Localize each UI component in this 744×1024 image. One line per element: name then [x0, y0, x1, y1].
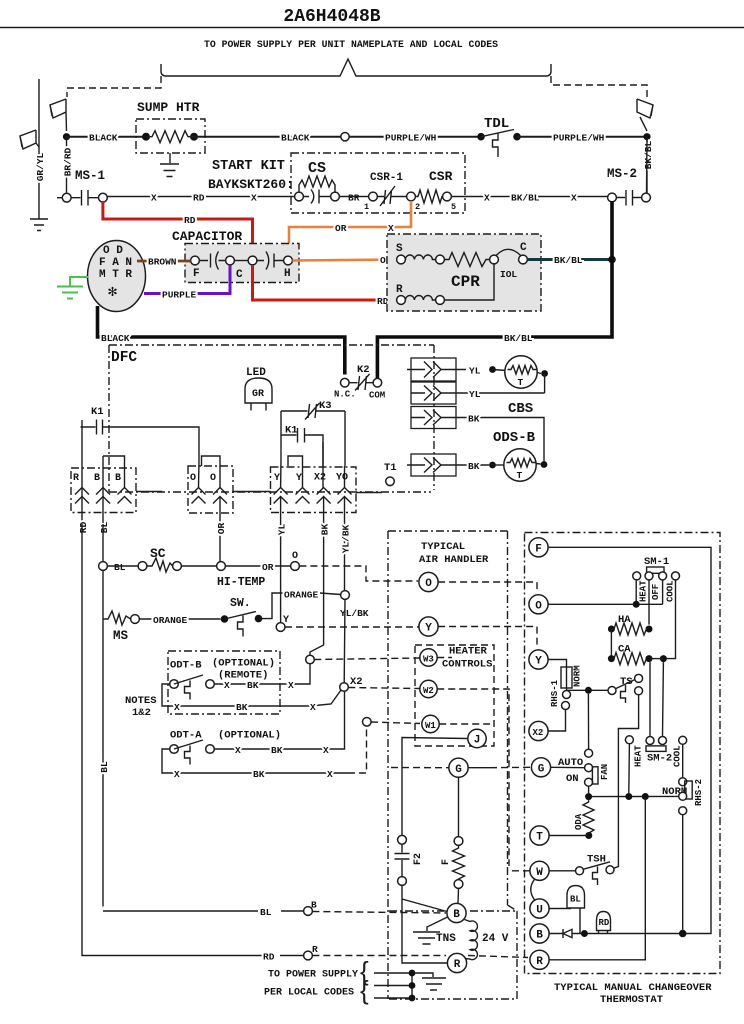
svg-text:B: B	[311, 900, 317, 911]
svg-text:BR: BR	[348, 193, 360, 204]
svg-text:M T R: M T R	[99, 269, 132, 281]
svg-text:ODA: ODA	[574, 813, 584, 830]
svg-text:BAYKSKT260:: BAYKSKT260:	[208, 177, 294, 192]
switch ODT-A	[170, 745, 179, 754]
ground sump heater	[160, 153, 179, 177]
wire RD red from MS-1	[103, 201, 253, 256]
svg-text:X2: X2	[350, 676, 363, 688]
wire PURPLE	[144, 265, 230, 294]
svg-text:O: O	[535, 601, 542, 613]
svg-text:THERMOSTAT: THERMOSTAT	[600, 994, 663, 1006]
svg-text:X: X	[571, 193, 577, 204]
LED BL	[567, 886, 585, 909]
wire J to fuse F2	[402, 738, 468, 836]
terminal R thermostat	[530, 950, 549, 969]
wire YL/BK vertical continue	[331, 599, 345, 749]
svg-text:BK: BK	[320, 524, 331, 536]
svg-text:CBS: CBS	[508, 401, 533, 417]
wire SM-1 cool contact down to CA junction	[663, 580, 675, 659]
svg-text:R: R	[312, 944, 318, 955]
svg-text:Y: Y	[274, 473, 280, 484]
dashed feeder wire left	[67, 76, 161, 97]
svg-text:O D: O D	[103, 245, 123, 257]
svg-text:O: O	[292, 551, 298, 562]
svg-text:BL: BL	[570, 895, 581, 905]
terminal F thermostat	[529, 538, 548, 557]
node connector circle	[341, 133, 349, 141]
svg-text:ODT-B: ODT-B	[170, 660, 202, 672]
switch HI-TEMP	[221, 615, 229, 623]
svg-text:ODS-B: ODS-B	[493, 430, 536, 446]
svg-text:O: O	[210, 473, 216, 484]
wire dfc bottom border continues 2	[233, 491, 271, 493]
svg-text:SM-2: SM-2	[647, 753, 672, 765]
wire orange label row	[320, 593, 341, 595]
svg-text:SW.: SW.	[230, 597, 251, 610]
wire F2 to B	[402, 885, 447, 963]
wire dfc bottom border continues	[136, 491, 162, 493]
wire T to ODA	[549, 835, 589, 837]
wire RD red to compressor R	[253, 265, 397, 300]
svg-text:BLACK: BLACK	[281, 133, 310, 144]
wire top line1 purple-wh	[349, 136, 481, 138]
svg-text:OR: OR	[216, 523, 227, 535]
svg-text:BK/BL: BK/BL	[643, 140, 654, 169]
svg-text:W2: W2	[423, 686, 434, 696]
wire dashed O right to thermostat	[438, 582, 537, 593]
wire F to right rail	[548, 547, 711, 933]
svg-text:W1: W1	[425, 721, 436, 731]
svg-text:C: C	[520, 242, 527, 254]
wire dashed ODT-B circle to W3	[314, 658, 420, 660]
svg-text:BK: BK	[468, 461, 480, 472]
wire GR/YL	[38, 79, 40, 219]
LED RD	[597, 912, 611, 931]
terminal Y thermostat	[529, 650, 548, 669]
terminal W thermostat	[530, 861, 549, 880]
svg-text:R: R	[73, 473, 79, 484]
svg-text:COOL: COOL	[673, 745, 683, 767]
power feed bracket	[161, 59, 551, 76]
wire dashed R to thermostat	[312, 956, 528, 958]
wire SM-1 heat contact down to HA	[648, 580, 650, 625]
svg-text:W: W	[536, 867, 543, 879]
svg-text:ORANGE: ORANGE	[284, 590, 319, 601]
svg-text:SUMP HTR: SUMP HTR	[137, 100, 200, 115]
svg-text:Y: Y	[425, 623, 432, 635]
terminal G thermostat	[531, 758, 550, 777]
node X2 junction	[340, 683, 349, 692]
wire OR orange to compressor S	[292, 260, 396, 261]
svg-text:1&2: 1&2	[132, 707, 151, 719]
wire dashed B to transformer	[312, 912, 446, 914]
svg-text:X: X	[310, 702, 316, 713]
plug row 2 YL	[411, 382, 456, 404]
spade terminal group Y Y X2 YO box	[271, 467, 357, 513]
svg-text:PURPLE/WH: PURPLE/WH	[553, 133, 605, 144]
svg-text:X: X	[251, 193, 257, 204]
svg-text:TYPICAL: TYPICAL	[421, 541, 465, 553]
svg-text:G: G	[455, 764, 462, 776]
svg-text:TNS: TNS	[436, 933, 456, 945]
terminal X2 thermostat	[529, 721, 548, 740]
svg-text:B: B	[453, 909, 460, 921]
svg-text:R: R	[396, 284, 403, 296]
terminal J	[468, 729, 486, 747]
start kit box	[291, 153, 465, 213]
switch SC row	[99, 562, 108, 571]
svg-text:(OPTIONAL): (OPTIONAL)	[212, 658, 275, 670]
svg-text:PURPLE/WH: PURPLE/WH	[385, 133, 437, 144]
diode B line	[549, 929, 683, 938]
svg-text:F A N: F A N	[99, 257, 132, 269]
svg-text:YL: YL	[469, 389, 481, 400]
svg-text:BK: BK	[236, 702, 248, 713]
svg-text:YL: YL	[469, 366, 481, 377]
svg-text:ON: ON	[566, 773, 579, 785]
svg-text:PER LOCAL CODES: PER LOCAL CODES	[264, 988, 354, 999]
quick-connect horn ground lead	[20, 130, 39, 149]
title underline rule	[0, 27, 744, 29]
svg-text:J: J	[474, 735, 481, 747]
spade terminal group R B B box	[71, 468, 136, 513]
node L1 junction	[63, 133, 70, 140]
svg-text:CSR: CSR	[429, 169, 453, 184]
svg-text:O: O	[190, 473, 196, 484]
wire dashed Y to air handler	[285, 626, 419, 628]
arc W to U	[531, 879, 535, 900]
resistor RHS-1	[548, 660, 566, 668]
plug row 4 BK	[411, 454, 456, 476]
svg-text:F: F	[441, 859, 452, 865]
wire dashed G left	[391, 767, 449, 769]
wire TS lower contact to SM-2 heat	[614, 695, 639, 869]
wire R up to NORM row	[549, 800, 645, 960]
wire dashed O to air handler	[299, 566, 418, 581]
quick-connect horn L1	[50, 99, 67, 131]
svg-text:RHS-2: RHS-2	[694, 779, 704, 806]
svg-text:YL/BK: YL/BK	[341, 524, 352, 553]
svg-text:F2: F2	[413, 853, 424, 865]
wire dashed W2 right	[437, 689, 530, 871]
svg-text:K1: K1	[91, 406, 104, 418]
svg-text:RD: RD	[78, 522, 89, 534]
svg-text:MS: MS	[113, 629, 129, 643]
ground symbol left	[30, 219, 48, 231]
svg-text:K2: K2	[357, 364, 370, 376]
svg-text:GR: GR	[252, 389, 264, 400]
svg-text:S: S	[396, 243, 403, 255]
dashed feeder wire right	[551, 76, 647, 97]
svg-text:X2: X2	[314, 473, 326, 484]
svg-text:OFF: OFF	[651, 584, 661, 600]
svg-text:HEAT: HEAT	[634, 745, 644, 767]
heater controls box	[415, 645, 494, 746]
ODT-B box	[168, 651, 280, 714]
svg-text:COM: COM	[369, 391, 385, 401]
svg-text:BK: BK	[468, 414, 480, 425]
svg-text:✻: ✻	[108, 284, 117, 301]
sensor ODS-B	[504, 449, 536, 481]
wire G down to fan relay F	[458, 777, 460, 836]
svg-text:X: X	[484, 193, 490, 204]
svg-text:5: 5	[451, 202, 456, 212]
wire dashed ODT-A to W1	[348, 726, 367, 773]
terminal Y small	[276, 623, 285, 632]
svg-text:T: T	[536, 832, 543, 844]
svg-text:X: X	[388, 223, 394, 234]
svg-text:HEAT: HEAT	[639, 580, 649, 602]
svg-text:BK/BL: BK/BL	[554, 255, 583, 266]
svg-text:TO POWER SUPPLY: TO POWER SUPPLY	[268, 970, 358, 981]
svg-text:T: T	[517, 470, 523, 481]
wire U to BL led	[549, 908, 571, 910]
resistor F fan relay	[454, 837, 463, 846]
svg-text:G: G	[538, 764, 545, 776]
wire BROWN	[137, 260, 191, 263]
svg-text:F: F	[535, 544, 542, 556]
svg-text:U: U	[536, 905, 543, 917]
svg-text:X: X	[288, 680, 294, 691]
svg-text:RD: RD	[599, 918, 610, 928]
svg-text:PURPLE: PURPLE	[162, 290, 197, 301]
svg-text:X: X	[235, 745, 241, 756]
terminal U thermostat	[530, 899, 549, 918]
svg-text:F: F	[193, 268, 200, 280]
svg-text:X2: X2	[533, 728, 544, 738]
svg-text:BK: BK	[271, 745, 283, 756]
svg-text:CAPACITOR: CAPACITOR	[172, 229, 242, 244]
svg-text:RHS-1: RHS-1	[550, 679, 560, 707]
wire BK/BL drop	[646, 137, 648, 194]
svg-text:MS-2: MS-2	[607, 167, 637, 181]
svg-text:W3: W3	[423, 654, 434, 664]
svg-text:OR: OR	[335, 223, 347, 234]
svg-text:RD: RD	[263, 952, 275, 963]
svg-text:(OPTIONAL): (OPTIONAL)	[218, 730, 281, 742]
terminal T thermostat	[530, 826, 549, 845]
svg-text:R: R	[454, 959, 461, 971]
terminal W3	[420, 649, 437, 666]
svg-text:Y: Y	[535, 656, 542, 668]
wire OR orange from CSR terminal 2	[289, 201, 411, 256]
node YL/BK junction circle	[341, 591, 350, 600]
svg-text:X: X	[174, 769, 180, 780]
wire top line1 right	[517, 136, 647, 138]
svg-text:BK/BL: BK/BL	[504, 333, 533, 344]
svg-text:O: O	[425, 578, 432, 590]
svg-text:HI-TEMP: HI-TEMP	[217, 576, 265, 589]
svg-text:IOL: IOL	[500, 269, 517, 280]
wire MS-1 to CS	[107, 196, 294, 198]
terminal W1	[422, 715, 439, 732]
ground transformer	[413, 917, 448, 944]
svg-text:HEATER: HEATER	[449, 646, 488, 658]
svg-text:R: R	[536, 956, 543, 968]
terminal O thermostat	[529, 595, 548, 614]
capacitor box shaded	[185, 244, 299, 283]
svg-text:H: H	[284, 268, 291, 280]
svg-text:X: X	[174, 702, 180, 713]
wire RD long vertical	[82, 524, 304, 956]
svg-text:NORM: NORM	[573, 665, 583, 687]
capacitor dual run F C H	[191, 256, 200, 265]
svg-text:TDL: TDL	[484, 116, 509, 132]
terminal R transformer	[447, 953, 466, 972]
svg-text:{: {	[360, 975, 369, 1005]
svg-text:C: C	[236, 269, 243, 281]
svg-text:SC: SC	[150, 546, 166, 561]
svg-text:RD: RD	[184, 215, 196, 226]
svg-text:CPR: CPR	[451, 273, 480, 291]
svg-text:B: B	[115, 473, 121, 484]
thermostat box	[525, 533, 721, 974]
svg-text:OR: OR	[262, 562, 274, 573]
wire ODT-B lower row	[162, 684, 341, 706]
terminal O air handler	[419, 572, 438, 591]
wire NORM row	[589, 795, 682, 797]
svg-text:X: X	[327, 769, 333, 780]
svg-text:2A6H4048B: 2A6H4048B	[283, 7, 380, 27]
wire X2 up to RHS-1	[548, 710, 565, 732]
sensor CBS	[505, 356, 537, 388]
terminal W2	[420, 680, 437, 697]
wire SM-2 contacts up	[650, 662, 663, 736]
wire fan on down to norm row	[588, 786, 590, 796]
wire BLACK heavy from motor	[98, 306, 345, 375]
terminal Y air handler	[419, 617, 438, 636]
svg-text:DFC: DFC	[111, 350, 137, 366]
winding R	[397, 296, 406, 305]
svg-text:MS-1: MS-1	[75, 169, 105, 183]
svg-text:X: X	[224, 680, 230, 691]
wire MS-2 up to L2	[646, 139, 649, 193]
wire dashed X2 to W2	[348, 688, 420, 689]
wire BL long vertical	[103, 524, 304, 911]
svg-text:BROWN: BROWN	[148, 257, 177, 268]
wire G to thermostat G	[468, 767, 490, 769]
svg-text:B: B	[536, 930, 543, 942]
wire CSR to MS-2	[451, 196, 607, 198]
plug row 3 BK	[411, 407, 456, 429]
wire fan auto up to TS junction	[587, 694, 589, 749]
svg-text:BL: BL	[260, 907, 272, 918]
svg-text:BR/RD: BR/RD	[63, 147, 74, 176]
svg-text:AIR HANDLER: AIR HANDLER	[419, 554, 489, 566]
svg-text:B: B	[94, 473, 100, 484]
wire BK/BL heavy from MS-2	[377, 201, 612, 379]
wire dfc bottom border right	[356, 492, 382, 494]
svg-text:RD: RD	[193, 193, 205, 204]
svg-text:X: X	[323, 745, 329, 756]
svg-text:BLACK: BLACK	[101, 333, 130, 344]
svg-text:T: T	[518, 377, 524, 388]
svg-text:T1: T1	[384, 462, 397, 474]
svg-text:YO: YO	[336, 473, 348, 484]
DFC board box	[109, 345, 434, 492]
svg-text:BK: BK	[247, 680, 259, 691]
quick-connect horn L2	[637, 99, 653, 131]
winding S	[397, 255, 406, 264]
ground motor green	[57, 277, 88, 299]
svg-text:ODT-A: ODT-A	[170, 730, 202, 742]
svg-text:LED: LED	[246, 367, 266, 379]
svg-text:BL: BL	[114, 562, 126, 573]
resistor SUMP HTR	[142, 133, 150, 141]
svg-text:BL: BL	[99, 761, 110, 773]
svg-text:BK: BK	[253, 769, 265, 780]
svg-text:GR/YL: GR/YL	[35, 152, 46, 181]
wire HA left to CA left	[610, 629, 612, 659]
svg-text:CONTROLS: CONTROLS	[442, 659, 492, 671]
svg-text:24 V: 24 V	[482, 933, 509, 945]
svg-text:COOL: COOL	[666, 580, 676, 602]
air handler box	[388, 531, 517, 999]
wire SM-2 heat down to NORM row	[628, 744, 631, 793]
terminal B transformer	[447, 903, 466, 922]
transformer box	[389, 911, 517, 999]
svg-text:NOTES: NOTES	[125, 695, 157, 707]
node BK/BL junction	[608, 256, 616, 264]
svg-text:FAN: FAN	[600, 764, 610, 780]
svg-text:Y: Y	[296, 473, 302, 484]
transformer TNS coil	[465, 920, 478, 960]
svg-text:TO POWER SUPPLY PER UNIT NAMEP: TO POWER SUPPLY PER UNIT NAMEPLATE AND L…	[204, 39, 498, 50]
svg-text:Y: Y	[283, 615, 289, 626]
svg-text:SM-1: SM-1	[644, 556, 669, 568]
wire top line1 mid	[194, 136, 341, 138]
spade terminal group O O box	[188, 466, 233, 513]
wire O to SM-1	[548, 580, 663, 604]
svg-text:BLACK: BLACK	[89, 133, 118, 144]
ground power supply	[412, 973, 446, 990]
fuse F2	[398, 835, 407, 844]
wire BK/BL teal from C	[527, 258, 612, 261]
svg-text:BL: BL	[99, 522, 110, 534]
compressor CPR box shaded	[387, 234, 541, 311]
wire ODT-A lower row	[162, 749, 348, 773]
power supply wires	[374, 973, 412, 998]
terminal G air handler	[449, 758, 468, 777]
wire dashed Y right to thermostat	[438, 627, 537, 649]
svg-text:START KIT: START KIT	[212, 159, 285, 174]
overload IOL arc	[496, 249, 521, 255]
terminal B thermostat	[530, 924, 549, 943]
switch ODT-B	[170, 680, 179, 689]
svg-text:BK/BL: BK/BL	[511, 193, 540, 204]
svg-text:CSR-1: CSR-1	[370, 172, 403, 184]
plug row 1 YL	[411, 358, 456, 381]
node L2 junction	[643, 133, 650, 140]
svg-text:N.C.: N.C.	[334, 390, 356, 400]
wire top line1 black	[67, 136, 147, 138]
svg-text:ORANGE: ORANGE	[153, 615, 188, 626]
svg-text:X: X	[151, 193, 157, 204]
svg-text:TYPICAL MANUAL CHANGEOVER: TYPICAL MANUAL CHANGEOVER	[554, 982, 712, 994]
motor OD FAN MTR	[88, 241, 146, 312]
svg-text:K3: K3	[319, 400, 332, 412]
svg-text:1: 1	[364, 202, 369, 212]
wire BR/RD drop	[66, 137, 68, 194]
svg-text:YL: YL	[277, 524, 288, 536]
svg-text:2: 2	[415, 202, 420, 212]
sump heater box	[136, 119, 205, 153]
